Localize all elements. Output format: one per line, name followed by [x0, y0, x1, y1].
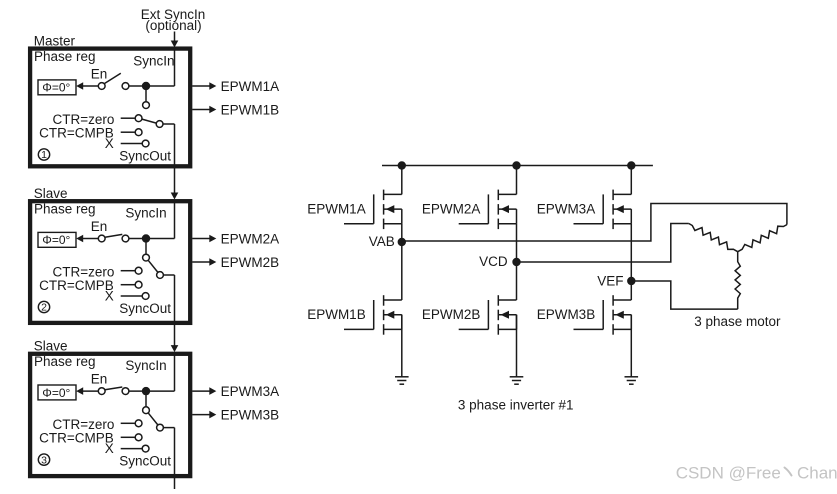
svg-text:SyncIn: SyncIn — [133, 54, 174, 69]
svg-text:VEF: VEF — [597, 274, 623, 289]
svg-text:Slave: Slave — [34, 186, 68, 201]
svg-text:Φ=0°: Φ=0° — [42, 386, 70, 400]
svg-text:3: 3 — [41, 454, 47, 466]
svg-text:X: X — [105, 441, 114, 456]
svg-text:CSDN @Free: CSDN @Free — [676, 464, 781, 483]
svg-text:X: X — [105, 136, 114, 151]
svg-text:2: 2 — [41, 302, 47, 314]
svg-text:EPWM2B: EPWM2B — [422, 307, 481, 322]
svg-text:EPWM1A: EPWM1A — [307, 201, 366, 216]
svg-text:EPWM3A: EPWM3A — [537, 201, 596, 216]
svg-text:CTR=CMPB: CTR=CMPB — [39, 278, 114, 293]
svg-text:SyncOut: SyncOut — [119, 148, 171, 163]
svg-text:Phase reg: Phase reg — [34, 201, 96, 216]
svg-text:En: En — [91, 66, 108, 81]
svg-text:EPWM2B: EPWM2B — [221, 255, 280, 270]
svg-text:X: X — [105, 288, 114, 303]
svg-text:SyncIn: SyncIn — [125, 358, 166, 373]
svg-text:EPWM3B: EPWM3B — [537, 307, 596, 322]
svg-text:CTR=CMPB: CTR=CMPB — [39, 126, 114, 141]
svg-text:Phase reg: Phase reg — [34, 49, 96, 64]
svg-text:En: En — [91, 219, 108, 234]
svg-text:VAB: VAB — [369, 234, 395, 249]
svg-text:EPWM2A: EPWM2A — [422, 201, 481, 216]
svg-text:SyncOut: SyncOut — [119, 453, 171, 468]
svg-text:Master: Master — [34, 34, 76, 49]
svg-text:Φ=0°: Φ=0° — [42, 233, 70, 247]
svg-text:1: 1 — [41, 149, 47, 161]
svg-text:Chan: Chan — [797, 464, 837, 483]
svg-text:CTR=CMPB: CTR=CMPB — [39, 431, 114, 446]
svg-text:EPWM1A: EPWM1A — [221, 79, 280, 94]
svg-text:EPWM1B: EPWM1B — [307, 307, 366, 322]
svg-text:Slave: Slave — [34, 339, 68, 354]
svg-text:(optional): (optional) — [145, 18, 201, 33]
svg-text:3 phase inverter #1: 3 phase inverter #1 — [458, 398, 574, 413]
svg-text:Φ=0°: Φ=0° — [42, 81, 70, 95]
svg-text:Phase reg: Phase reg — [34, 354, 96, 369]
svg-text:3 phase motor: 3 phase motor — [694, 314, 781, 329]
svg-text:EPWM1B: EPWM1B — [221, 102, 280, 117]
svg-text:EPWM3A: EPWM3A — [221, 384, 280, 399]
svg-text:EPWM2A: EPWM2A — [221, 231, 280, 246]
svg-text:SyncOut: SyncOut — [119, 301, 171, 316]
svg-text:VCD: VCD — [479, 254, 508, 269]
svg-text:SyncIn: SyncIn — [125, 206, 166, 221]
svg-text:EPWM3B: EPWM3B — [221, 407, 280, 422]
svg-text:En: En — [91, 371, 108, 386]
